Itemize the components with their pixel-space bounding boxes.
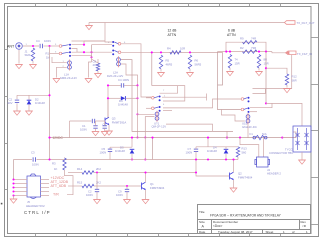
junction 6db topcorner (225, 51, 227, 53)
wire J5 left pin 2 (14, 183, 28, 185)
coil L1A (68, 60, 72, 71)
svg-text:6 dB: 6 dB (228, 29, 236, 33)
svg-text:SMA: SMA (25, 53, 31, 57)
resistor R4 series (170, 51, 181, 54)
wire y122 corner (69, 121, 71, 138)
ground under R8 (95, 74, 102, 78)
wire gnd stem top (88, 23, 90, 26)
junction 145-159 (144, 158, 146, 160)
wire c1 stub (95, 121, 97, 126)
wire L1 poleB out2 (72, 56, 92, 58)
wire snubL2 dio2 (125, 97, 137, 99)
junction 12db b (189, 51, 191, 53)
wire c10 bot (96, 192, 98, 199)
junction 12db a (160, 51, 162, 53)
svg-text:SMR-2F+12V: SMR-2F+12V (60, 76, 77, 80)
svg-text:Date: Date (199, 230, 206, 234)
svg-text:560: 560 (242, 151, 247, 155)
capacitor C7 (194, 149, 198, 151)
svg-text:R2: R2 (240, 46, 244, 50)
svg-text:C4: C4 (36, 39, 40, 43)
ground under C9 (124, 200, 131, 204)
junction J5 pin 5 (12, 194, 14, 196)
wire d4 stub (225, 147, 227, 150)
wire poleA upper to gnd (72, 40, 106, 42)
junction d4 bottom (225, 158, 227, 160)
ground under Q3 (106, 131, 113, 135)
svg-text:4070: 4070 (93, 63, 100, 67)
wire c5 top (110, 146, 132, 148)
wire r13 bot (237, 157, 239, 160)
wire L1 poleB out (72, 51, 113, 53)
wire c7 bot (195, 152, 197, 160)
svg-text:HEADER 5X2: HEADER 5X2 (26, 204, 45, 208)
zone mark left (1, 203, 3, 205)
svg-text:of: of (292, 230, 295, 234)
coil U1B (246, 113, 250, 124)
junction 127-186 (126, 185, 128, 187)
ground 6db b (256, 72, 263, 76)
wire 12db row (152, 51, 223, 53)
junction snub bl (107, 97, 109, 99)
svg-text:100N: 100N (44, 39, 51, 43)
wire 208 drop (207, 138, 209, 147)
svg-text:1N4148: 1N4148 (35, 101, 45, 105)
junction q2 coll (232, 158, 234, 160)
junction C4 out (48, 45, 50, 47)
svg-text:73R: 73R (251, 46, 256, 50)
svg-text:12VDC: 12VDC (53, 136, 64, 140)
junction 137 coil (136, 113, 138, 115)
svg-text:Size: Size (199, 220, 205, 224)
wire y122 run (70, 120, 92, 122)
wire C4 to relay L1 (44, 45, 60, 47)
wire J5 left pin 1 (14, 179, 28, 181)
junction 137 rail (136, 136, 138, 138)
wire J1 ground stem (18, 50, 20, 64)
wire r14 right (94, 172, 196, 174)
wire q1 emitter (145, 190, 147, 199)
svg-text:4: 4 (163, 104, 165, 106)
connector J1 SMA (16, 43, 23, 50)
wire R12 branch (266, 68, 287, 74)
junction snub br (136, 97, 138, 99)
wire c6 down (104, 128, 106, 131)
wire 6db mid (218, 51, 273, 53)
transistor Q2 (230, 172, 234, 180)
svg-text:1N4148: 1N4148 (115, 149, 125, 153)
ground under Q1 (142, 200, 149, 204)
relay L1 pole A (59, 44, 71, 50)
wire R6 gnd (189, 69, 191, 72)
capacitor C4b 100N (121, 83, 123, 87)
transistor Q3 (105, 117, 109, 125)
diode D4b (121, 96, 126, 100)
svg-text:100N: 100N (100, 151, 107, 155)
wire d2 stub top (28, 95, 30, 100)
junction 196-159 (195, 158, 197, 160)
resistor R15 (82, 184, 94, 187)
junction 152 rail (151, 137, 153, 139)
svg-text:56R: 56R (292, 79, 297, 83)
svg-text:F1: F1 (250, 132, 254, 136)
wire coil2 pin2 feed (145, 117, 154, 138)
connector J5 notch bottom (30, 197, 37, 198)
svg-text:74R: 74R (251, 36, 256, 40)
resistor R11 shunt (257, 55, 260, 69)
wire r15 left (68, 185, 82, 187)
capacitor C2 (15, 100, 19, 102)
junction d3 bottom (131, 158, 133, 160)
wire q2 base feed (196, 160, 230, 177)
wire coil L1 pin2 (57, 67, 67, 77)
wire R1 to ground (32, 61, 34, 64)
wire R8 top (92, 59, 99, 63)
wire txout horiz (89, 22, 285, 24)
svg-text:TX_FILT_IN: TX_FILT_IN (297, 52, 312, 56)
wire f1 to tyco (282, 132, 296, 138)
wire 266 vert (265, 52, 267, 104)
capacitor C9 (125, 189, 129, 191)
title block (198, 205, 311, 234)
wire r14 left (68, 172, 82, 174)
wire r3 bot (65, 170, 74, 195)
wire 12v rail (50, 137, 297, 139)
wire relay2 poleA pin (146, 97, 151, 99)
wire snub1 right (152, 138, 154, 160)
wire 91 vert (91, 45, 93, 58)
ground under R12 (284, 89, 291, 93)
resistor R10 shunt (228, 55, 231, 69)
wire L1 pole2 feed (50, 53, 60, 55)
wire 12db mid (151, 52, 153, 85)
junction d3 rail (131, 137, 133, 139)
wire 91 gnd stem (89, 62, 92, 78)
ground 6db a (227, 72, 234, 76)
wire relay3 poleB stub2 (250, 111, 257, 113)
junction J5 pin 1 (12, 178, 14, 180)
junction 84-52 (83, 51, 85, 53)
wire U1B coil drop (247, 124, 249, 137)
svg-text:HEADER 2: HEADER 2 (267, 171, 281, 175)
ground under C6 (101, 132, 108, 136)
resistor R3 (63, 158, 66, 170)
wire d4 bot (225, 154, 227, 160)
junction c7 bottom (207, 158, 209, 160)
ground top mid (86, 26, 93, 30)
svg-text:R15: R15 (77, 181, 83, 185)
junction 84-45 (83, 44, 85, 46)
wire J5 right pin 4 (41, 191, 50, 193)
ground L1 coil (53, 79, 60, 83)
svg-text:<R: <R (302, 224, 307, 228)
wire relay3 coil route (222, 110, 245, 122)
junction 12db left (151, 51, 153, 53)
capacitor C10 (95, 189, 99, 191)
relay L1 pole B (59, 51, 71, 57)
wire J5 gnd stem (13, 196, 15, 199)
junction J5 pin 2 (12, 182, 14, 184)
junction q1 coll (144, 171, 146, 173)
svg-text:FMMT4904: FMMT4904 (150, 186, 165, 190)
svg-text:R14: R14 (77, 167, 83, 171)
ground under R1 (30, 65, 37, 69)
junction 6db corner (265, 51, 267, 53)
diode D2 (27, 100, 32, 104)
wire coil L2 pin1 long (121, 60, 233, 132)
svg-text:100N: 100N (86, 193, 93, 197)
svg-text:ATTN: ATTN (227, 33, 236, 37)
svg-text:Sheet: Sheet (266, 230, 274, 234)
svg-text:FMMT4904: FMMT4904 (238, 176, 253, 180)
relay K1 TYCO box (293, 126, 311, 152)
wire j4 pin1 (240, 138, 259, 157)
wire 206 stub (206, 94, 208, 101)
ground 12db a (158, 73, 165, 77)
svg-text:1M: 1M (46, 56, 51, 60)
wire relay2 poleA out2 (152, 86, 185, 101)
junction J5 pin 4 (12, 190, 14, 192)
junction coil2 rail (144, 136, 146, 138)
capacitor C4 (40, 44, 42, 48)
resistor R5 shunt (159, 55, 162, 69)
wire 12db right drop (218, 52, 223, 85)
ground under D2 (26, 111, 33, 115)
wire J5 left pin 5 (14, 195, 28, 197)
wire L1 upper link (84, 40, 105, 42)
wire relay3 poleA top (253, 55, 292, 89)
wire 6db top (226, 42, 266, 51)
capacitor C6 shunt (103, 126, 107, 128)
svg-text:R4: R4 (167, 47, 171, 51)
wire long159 left (14, 159, 33, 161)
wire relay2 coil route (166, 124, 213, 131)
svg-text:N/A: N/A (262, 132, 267, 136)
wire r15 right (94, 185, 142, 187)
svg-text:A: A (202, 224, 205, 228)
off-page connector TX_FILT_OUT (285, 21, 296, 25)
wire txout drop (105, 23, 113, 43)
ground under J5 pins (10, 199, 17, 203)
diode D3 (130, 149, 135, 153)
junction 266-103 (265, 102, 267, 104)
ground under Q2 (230, 188, 237, 192)
junction snub tl (107, 84, 109, 86)
wire snubL2 left (107, 85, 109, 117)
ground at 88 (85, 79, 92, 83)
junction 6db right (258, 51, 260, 53)
capacitor C1 shunt (93, 126, 97, 128)
relay2 pole A (152, 96, 161, 102)
svg-text:1N4148: 1N4148 (207, 149, 217, 153)
capacitor C3 (33, 157, 35, 161)
wire R10 gnd (229, 68, 231, 71)
svg-text:12 dB: 12 dB (168, 29, 178, 33)
junction snub tr (136, 84, 138, 86)
svg-text:1K: 1K (54, 167, 58, 171)
svg-text:15R: 15R (235, 62, 240, 66)
wire J5 right pin 2 (41, 183, 50, 185)
resistor R6 shunt (188, 55, 191, 69)
junction 12vdc (48, 137, 50, 139)
svg-text:G6H-2F-DC: G6H-2F-DC (242, 125, 257, 129)
junction 91-52 (90, 51, 92, 53)
svg-text:R3: R3 (52, 162, 56, 166)
title block text (199, 210, 308, 234)
ground 12db b (187, 73, 194, 77)
junction 159 bus (48, 158, 50, 160)
svg-text:56R5: 56R5 (195, 63, 202, 67)
fuse F1 (253, 135, 267, 139)
wire 145 down (144, 138, 146, 160)
resistor R2 series (243, 50, 258, 53)
svg-text:R9: R9 (240, 36, 244, 40)
resistor R14 (82, 171, 94, 174)
wire r3 top (64, 156, 66, 159)
svg-text:CTRL I/P: CTRL I/P (24, 210, 51, 215)
wire snubL2 dio (108, 97, 121, 99)
connector J5 notch top (30, 174, 36, 176)
wire relay3 poleA out2 (253, 89, 266, 94)
wire q3 collector (107, 98, 109, 117)
wire q2 emitter (233, 180, 235, 188)
junction 208 rail (207, 137, 209, 139)
junction 97-172 (96, 171, 98, 173)
wire c5 stub (109, 147, 111, 149)
wire L2 poleA stub (121, 44, 151, 97)
wire c9 bot (126, 192, 128, 199)
relay K1 elements (296, 128, 309, 150)
svg-text:100N: 100N (80, 127, 87, 131)
svg-text:C4 100N: C4 100N (118, 78, 129, 82)
wire c9 stub (126, 186, 128, 189)
wire txin stub (272, 52, 286, 53)
wire R12 gnd (286, 85, 288, 88)
wire 137 upper (137, 85, 139, 114)
junction J5 pin 3 (12, 186, 14, 188)
wire 227 tee (226, 131, 228, 137)
wire 13 down (13, 160, 15, 180)
resistor R8 (96, 63, 99, 71)
wire long159 right (37, 159, 239, 161)
junction 91-57 (90, 56, 92, 58)
ground under C10 (94, 200, 101, 204)
ground under TYCO (299, 160, 306, 164)
wire to tyco (266, 103, 302, 126)
wire relay2 poleB pin (146, 107, 151, 109)
wire relay2 poleB out2 (163, 110, 172, 112)
wire snubL2 captop (108, 84, 121, 86)
wire coil L1 pin1 (52, 57, 67, 63)
junction c2d2 bus (48, 94, 50, 96)
wire q2 collector (233, 160, 235, 173)
wire tyco gnd stem (301, 152, 303, 160)
wire R11 gnd (258, 68, 260, 71)
wire J5 left pin 3 (14, 187, 28, 189)
resistor R12 (285, 74, 288, 85)
junction f1 right (281, 137, 283, 139)
relay U1B pole B (241, 107, 249, 113)
svg-text:46R5: 46R5 (166, 63, 173, 67)
diode D4 (224, 149, 229, 153)
svg-text:CONNECTOR TBC: CONNECTOR TBC (269, 151, 293, 155)
wire c6 stub (104, 121, 106, 126)
svg-text:2K2: 2K2 (96, 167, 101, 171)
junction 227 rail (226, 137, 228, 139)
wire ANT to C4 (23, 45, 39, 47)
junction 196-172 (195, 171, 197, 173)
relay2 pole B (152, 106, 161, 112)
svg-text:90V: 90V (8, 101, 13, 105)
wire d3 bot (131, 154, 133, 160)
wire L1 poleA out up (72, 41, 85, 45)
svg-text:100N: 100N (116, 193, 123, 197)
svg-text:ANT: ANT (7, 45, 15, 49)
wire c1 down (95, 128, 97, 131)
ground under J1 (16, 65, 23, 69)
wire c2 stub bot (16, 103, 18, 110)
junction f1 left (239, 137, 241, 139)
wire j4 pin2 (263, 138, 265, 157)
wire R5 gnd (160, 69, 162, 72)
wire q3 base (96, 120, 106, 122)
wire d3 drop (131, 138, 133, 148)
wire relay2 poleA out1 (162, 96, 207, 98)
wire R8 bottom (97, 71, 99, 73)
wire J5 right pin 5 (41, 195, 50, 197)
relay L2 pole B (112, 50, 121, 56)
wire snubL2 captop2 (124, 84, 137, 86)
svg-text:ATTN: ATTN (168, 33, 177, 37)
wire coil L2 pin2 (121, 64, 138, 85)
wire relay2 poleB out (163, 99, 241, 108)
wire relay3 poleB link (250, 103, 272, 107)
wire J5 right pin 3 (41, 187, 50, 189)
wire q1 collector (145, 173, 147, 183)
svg-text:FMMT591A: FMMT591A (112, 121, 127, 125)
svg-text:<Doc>: <Doc> (213, 224, 223, 228)
capacitor base q3 (92, 119, 94, 123)
wire d2 stub bot (28, 105, 30, 111)
wire 137 to rail (137, 114, 139, 137)
svg-text:Tuesday, August 08, 2017: Tuesday, August 08, 2017 (218, 230, 253, 234)
connector J5 HEADER 5X2 body (27, 176, 41, 197)
wire c7 stub (195, 147, 197, 149)
off-page connector TX_FILT_IN (286, 51, 297, 55)
wire bus x49 (49, 46, 51, 160)
relay L2 pole A (112, 41, 121, 47)
svg-text:C6: C6 (103, 123, 107, 127)
wire c2 stub top (16, 95, 18, 99)
wire 217 vert (218, 52, 242, 110)
svg-text:ATT_6DB: ATT_6DB (51, 184, 67, 188)
wire 91 down (91, 57, 93, 62)
wire J5 right pin 1 (41, 179, 50, 181)
svg-text:QM-2F-12V: QM-2F-12V (152, 124, 167, 128)
wire L1 poleA out2 (72, 49, 85, 53)
svg-text:100N: 100N (32, 162, 39, 166)
wire coil2 pin1 feed (138, 113, 155, 115)
junction 6db left (229, 51, 231, 53)
junction 266-68 (265, 67, 267, 69)
coil relay2 U1 (155, 111, 159, 122)
svg-text:Title: Title (199, 210, 205, 214)
svg-text:FPGA SDR -- RX ATTENUATOR AND: FPGA SDR -- RX ATTENUATOR AND T/R RELAY (210, 214, 282, 218)
wire relay2 poleA loop (160, 86, 178, 94)
svg-text:T/R: T/R (53, 192, 59, 196)
svg-text:1N4148: 1N4148 (118, 103, 128, 107)
capacitor C5 (108, 149, 112, 151)
